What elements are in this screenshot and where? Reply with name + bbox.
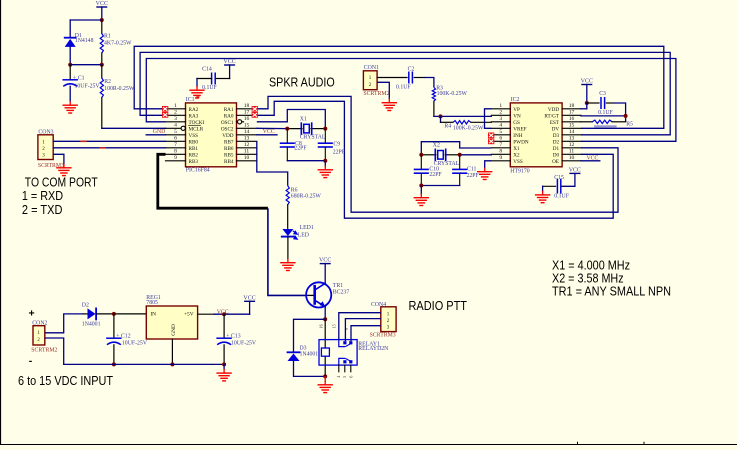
IC1 pin 7 RB1 xyxy=(166,147,186,149)
IC1 pin 14 VDD xyxy=(237,134,257,136)
node junction REG1 GND/rail xyxy=(170,362,174,366)
svg-text:17: 17 xyxy=(569,110,575,116)
IC2 pin 12 D1 xyxy=(562,147,581,149)
svg-text:C15: C15 xyxy=(554,175,564,181)
svg-text:16: 16 xyxy=(318,324,323,328)
wire VCC to VDD junction xyxy=(586,85,588,104)
IC2 pin 9 VSS xyxy=(491,160,510,162)
sheet border bottom edge xyxy=(0,444,737,446)
svg-text:X1: X1 xyxy=(513,146,520,152)
wire emitter node to D3 xyxy=(294,319,326,352)
svg-text:VCC: VCC xyxy=(587,156,599,162)
wire C15 to ground xyxy=(543,185,556,187)
svg-text:0.1UF: 0.1UF xyxy=(554,193,569,199)
node junction VCC/C13 xyxy=(222,312,226,316)
red tick on RXD wire xyxy=(81,140,86,142)
svg-text:6: 6 xyxy=(174,136,177,142)
relay top contact xyxy=(339,340,345,347)
svg-text:18: 18 xyxy=(569,103,575,109)
svg-text:-: - xyxy=(29,355,33,367)
svg-text:R6: R6 xyxy=(291,187,298,193)
svg-text:SCRTRM2: SCRTRM2 xyxy=(31,348,57,354)
svg-text:RB1: RB1 xyxy=(189,146,199,152)
wire junction down to R4 xyxy=(440,116,442,122)
wire R3 to IC2 VN xyxy=(434,115,491,117)
node junction D1/C1 xyxy=(68,63,72,67)
wire crystal caps ground rail xyxy=(287,160,325,162)
svg-text:22PF: 22PF xyxy=(333,149,346,155)
node junction C12/rail xyxy=(112,362,116,366)
wire junction to ground xyxy=(324,161,326,166)
power VCC right of REG1 xyxy=(245,300,255,302)
ground below relay xyxy=(324,376,326,381)
wire RT/GT pin17 xyxy=(581,115,626,117)
svg-text:RELAYD2N: RELAYD2N xyxy=(358,346,389,352)
node junction VCC/C3/VDD xyxy=(585,101,589,105)
wire relay coil vertical xyxy=(324,319,326,348)
svg-text:INH: INH xyxy=(513,133,522,139)
node junction C13/rail/ground xyxy=(222,362,226,366)
svg-text:5: 5 xyxy=(499,129,502,135)
svg-text:IC2: IC2 xyxy=(511,97,520,103)
svg-text:4K7-0.25W: 4K7-0.25W xyxy=(104,41,132,47)
svg-text:RB5: RB5 xyxy=(224,152,234,158)
wire CON3 pin1 to IC1 RB0 xyxy=(53,140,165,142)
wire CON3 pin3 to ground xyxy=(53,154,64,164)
svg-text:RADIO PTT: RADIO PTT xyxy=(409,298,468,313)
svg-text:1N4001: 1N4001 xyxy=(300,352,319,358)
svg-text:+: + xyxy=(29,308,35,320)
ground below C15 xyxy=(542,191,544,195)
IC2 pin 18 VDD xyxy=(562,108,581,110)
wire junction down to VDD pin18 xyxy=(586,103,588,109)
svg-text:R4: R4 xyxy=(444,124,451,130)
IC U1 PIC16F84 body xyxy=(186,103,237,167)
node junction R1/R2 xyxy=(100,63,104,67)
IC1 pin 10 RB4 xyxy=(237,160,257,162)
wire D2 to REG1 IN xyxy=(114,313,146,315)
wire C3 to RT/GT node xyxy=(614,103,626,122)
no-ERC marker IC2 pin5 xyxy=(488,133,494,139)
ground below CON1 xyxy=(388,99,390,103)
IC1 pin 12 RB6 xyxy=(237,147,257,149)
wire loop RA2 to DV (IC1 pin1 - IC2 pin15) xyxy=(134,46,664,128)
svg-text:X2: X2 xyxy=(513,152,520,158)
svg-text:+ C1: + C1 xyxy=(73,75,85,81)
svg-text:10UF-25V: 10UF-25V xyxy=(122,341,148,347)
no-ERC marker IC2 pin6 xyxy=(488,139,494,145)
svg-text:IC1: IC1 xyxy=(186,97,195,103)
svg-text:R5: R5 xyxy=(626,122,633,128)
svg-text:OSC1: OSC1 xyxy=(221,120,234,126)
wire VP-VREF tie xyxy=(485,109,492,129)
svg-text:14: 14 xyxy=(569,129,575,135)
no-ERC marker IC1 pin17 xyxy=(252,112,258,118)
IC1 pin 8 RB2 xyxy=(166,153,186,155)
svg-text:MCLR: MCLR xyxy=(189,126,204,132)
svg-text:10: 10 xyxy=(569,155,575,161)
IC2 pin 4 VREF xyxy=(491,127,510,129)
IC1 pin 13 RB7 xyxy=(237,140,257,142)
svg-text:3: 3 xyxy=(499,116,502,122)
svg-text:RA1: RA1 xyxy=(224,107,234,113)
svg-text:5: 5 xyxy=(174,129,177,135)
IC1 pin 15 OSC2 xyxy=(237,127,257,129)
capacitor C15 0.1UF xyxy=(561,185,563,187)
wire junction to D1 branch xyxy=(70,19,102,21)
wire C2 to R3 xyxy=(414,77,424,79)
node junction emitter/D3/relay coil xyxy=(323,317,327,321)
svg-text:VN: VN xyxy=(513,113,521,119)
svg-text:X1: X1 xyxy=(300,117,307,123)
svg-text:VCC: VCC xyxy=(581,79,593,85)
svg-text:D3: D3 xyxy=(300,345,307,351)
svg-text:8: 8 xyxy=(499,149,502,155)
wire loop RA0 to D0 (IC1 pin17 - IC2 pin11) xyxy=(257,101,613,218)
svg-text:R1: R1 xyxy=(104,33,111,39)
wire IC1 RB7 to R6 xyxy=(257,141,288,185)
wire C14 to ground xyxy=(197,78,212,80)
relay bottom contact xyxy=(339,358,345,365)
capacitor C1 10UF-25V xyxy=(69,65,71,80)
svg-text:VCC: VCC xyxy=(223,59,235,65)
wire ground rail xyxy=(64,363,224,365)
no-ERC marker IC1 pin1 xyxy=(162,106,168,112)
svg-text:16: 16 xyxy=(569,116,575,122)
sheet border left edge xyxy=(0,0,2,445)
capacitor C14 0.1UF xyxy=(211,73,213,84)
svg-text:TR1: TR1 xyxy=(333,283,343,289)
wire junction row xyxy=(70,64,102,66)
svg-text:D1: D1 xyxy=(553,146,560,152)
node junction D2/C12 xyxy=(112,312,116,316)
svg-text:680R-0.25W: 680R-0.25W xyxy=(291,193,322,199)
svg-text:VP: VP xyxy=(513,107,520,113)
svg-text:15: 15 xyxy=(244,123,250,129)
IC2 pin 15 DV xyxy=(562,127,581,129)
svg-text:EST: EST xyxy=(550,120,560,126)
wire VCC to C14 xyxy=(229,65,231,79)
node junction RT-GT/C3/R5 xyxy=(624,114,628,118)
wire CON3 pin2 to IC1 RB1 xyxy=(53,147,165,149)
svg-text:+ C12: + C12 xyxy=(116,334,130,340)
svg-text:2 = TXD: 2 = TXD xyxy=(22,202,63,217)
svg-text:BC237: BC237 xyxy=(333,289,350,295)
LED LED1 xyxy=(282,229,293,236)
svg-text:VCC: VCC xyxy=(569,167,581,173)
wire VCC to TR1 collector xyxy=(324,264,326,284)
node crystal X1 right junction xyxy=(323,127,327,131)
svg-text:RB6: RB6 xyxy=(224,146,234,152)
svg-text:SPKR AUDIO: SPKR AUDIO xyxy=(269,75,335,90)
wire CON4 pin2 to relay xyxy=(345,319,380,342)
transistor TR1 BC237 xyxy=(306,282,331,307)
wire IC2 VSS pin9 to ground xyxy=(485,161,492,168)
svg-text:SCRTRM3: SCRTRM3 xyxy=(370,333,396,339)
wire CON1 pin2 to ground xyxy=(377,82,389,99)
ground below crystal X1 caps xyxy=(324,166,326,170)
ground below C13 xyxy=(223,370,225,374)
svg-text:17: 17 xyxy=(244,110,250,116)
svg-text:SCRTRM2: SCRTRM2 xyxy=(363,91,389,97)
wire CON4 pin3 to relay xyxy=(351,326,381,342)
no-ERC marker IC1 pin18 xyxy=(252,106,258,112)
wire R2 to MCLR pin 4 of IC1 xyxy=(102,127,166,129)
svg-text:VDD: VDD xyxy=(222,133,233,139)
svg-text:VCC: VCC xyxy=(217,309,229,315)
svg-text:TOCKI: TOCKI xyxy=(189,120,205,126)
svg-text:13: 13 xyxy=(569,136,575,142)
crystal X1 xyxy=(287,128,302,130)
svg-text:10: 10 xyxy=(244,155,250,161)
ground below crystal X2 xyxy=(420,194,422,198)
resistor R5 xyxy=(581,121,593,123)
IC1 pin 4 MCLR xyxy=(166,127,186,129)
svg-text:6: 6 xyxy=(348,376,353,378)
R5 highlight bar xyxy=(594,125,617,127)
capacitor C10 22PF xyxy=(420,155,422,169)
svg-text:7805: 7805 xyxy=(146,300,158,306)
IC2 pin 16 EST xyxy=(562,121,581,123)
svg-text:RA0: RA0 xyxy=(224,113,234,119)
IC2 pin 10 OE xyxy=(562,160,581,162)
svg-text:PIC16F84: PIC16F84 xyxy=(186,167,210,173)
svg-text:22PF: 22PF xyxy=(429,172,442,178)
svg-text:9: 9 xyxy=(174,155,177,161)
diode D2 1N4001 xyxy=(83,313,87,315)
ground below CON3 xyxy=(63,164,65,168)
wire crystal X2 bottom rail xyxy=(421,185,459,187)
power VCC above C3 xyxy=(582,84,592,86)
power port VCC at IC1 VDD pin14 xyxy=(257,134,277,136)
resistor R4 100K-0.25W xyxy=(441,121,453,123)
capacitor C13 10UF-25V xyxy=(223,314,225,338)
svg-text:11: 11 xyxy=(244,149,250,155)
svg-text:13: 13 xyxy=(244,136,250,142)
svg-text:C14: C14 xyxy=(202,67,212,73)
IC2 pin 13 D2 xyxy=(562,140,581,142)
resistor R2 100R-0.25W xyxy=(101,65,103,78)
IC2 pin 2 VN xyxy=(491,114,510,116)
IC1 pin 1 RA2 xyxy=(166,108,186,110)
svg-text:15: 15 xyxy=(569,123,575,129)
wire TR1 emitter to relay node xyxy=(324,307,326,320)
svg-text:RA2: RA2 xyxy=(189,107,199,113)
IC U2 HT9170 body xyxy=(510,103,562,167)
capacitor C2 0.1UF xyxy=(408,72,410,83)
IC2 pin 3 GS xyxy=(491,121,510,123)
svg-text:6 to 15 VDC INPUT: 6 to 15 VDC INPUT xyxy=(18,373,113,388)
svg-text:1N4148: 1N4148 xyxy=(75,38,94,44)
wire VCC to C15 xyxy=(562,173,575,186)
IC2 pin 5 INH xyxy=(491,134,510,136)
svg-text:VDD: VDD xyxy=(548,107,559,113)
IC2 pin 7 X1 xyxy=(491,147,510,149)
svg-text:1: 1 xyxy=(499,103,502,109)
IC2 pin 14 D3 xyxy=(562,134,581,136)
svg-text:CON1: CON1 xyxy=(364,65,379,71)
resistor R6 680R-0.25W xyxy=(286,186,289,205)
svg-text:RB0: RB0 xyxy=(189,139,199,145)
svg-text:VCC: VCC xyxy=(96,1,108,7)
wire CON4 pin1 to relay xyxy=(339,313,381,340)
node crystal X2 right junction xyxy=(458,153,462,157)
svg-text:RB3: RB3 xyxy=(189,159,199,165)
svg-text:14: 14 xyxy=(244,129,250,135)
svg-text:DV: DV xyxy=(552,126,560,132)
relay coil xyxy=(321,348,329,356)
svg-text:7: 7 xyxy=(174,142,177,148)
svg-text:0.1UF: 0.1UF xyxy=(396,85,411,91)
diode D3 1N4001 xyxy=(288,351,300,353)
svg-text:CRYSTAL: CRYSTAL xyxy=(300,134,326,140)
svg-text:VCC: VCC xyxy=(319,258,331,264)
ground below LED1 xyxy=(287,259,289,263)
svg-text:C11: C11 xyxy=(467,167,477,173)
ground below C1 xyxy=(69,102,71,106)
svg-text:7: 7 xyxy=(499,142,502,148)
svg-text:VCC: VCC xyxy=(263,129,275,135)
node junction C10/ground xyxy=(419,184,423,188)
svg-text:6: 6 xyxy=(499,136,502,142)
wire loop RA3 to D3 (IC1 pin2 - IC2 pin14) xyxy=(140,52,670,134)
IC1 pin 6 RB0 xyxy=(166,140,186,142)
svg-text:4: 4 xyxy=(499,123,502,129)
wire loop TOCKI to D2 (IC1 pin3 - IC2 pin13) xyxy=(146,59,676,142)
no-ERC marker IC1 pin2 xyxy=(162,112,168,118)
svg-text:VCC: VCC xyxy=(243,295,255,301)
ground below C14 xyxy=(196,87,198,91)
svg-text:GS: GS xyxy=(513,120,520,126)
svg-text:15: 15 xyxy=(332,324,337,328)
svg-text:RT/GT: RT/GT xyxy=(544,113,560,119)
svg-text:HT9170: HT9170 xyxy=(510,168,529,174)
svg-text:12: 12 xyxy=(244,142,250,148)
power VCC above TR1 xyxy=(320,263,330,265)
wire CON2 pin1 to D2 xyxy=(45,314,83,333)
svg-text:LED: LED xyxy=(298,232,309,238)
svg-text:22PF: 22PF xyxy=(467,173,480,179)
IC1 pin 5 VSS xyxy=(166,134,186,136)
wire REG1 GND to rail xyxy=(171,339,173,364)
svg-text:2: 2 xyxy=(499,110,502,116)
svg-text:R2: R2 xyxy=(104,79,111,85)
resistor R1 4K7-0.25W xyxy=(101,20,103,34)
svg-text:D2: D2 xyxy=(553,139,560,145)
wire VCC stem to junction xyxy=(101,7,103,20)
svg-text:PWDN: PWDN xyxy=(513,139,529,145)
svg-text:C2: C2 xyxy=(408,66,415,72)
wire up to VCC symbol xyxy=(249,301,251,314)
svg-text:GND: GND xyxy=(153,129,166,135)
diode D1 1N4148 xyxy=(65,37,76,39)
IC1 pin 18 RA1 xyxy=(237,108,257,110)
svg-text:1: 1 xyxy=(174,103,177,109)
svg-text:1N4001: 1N4001 xyxy=(82,321,101,327)
svg-text:GND: GND xyxy=(171,324,177,336)
crystal X2 xyxy=(421,154,436,156)
svg-text:D0: D0 xyxy=(553,152,560,158)
IC1 pin 2 RA3 xyxy=(166,114,186,116)
node junction C9/ground xyxy=(323,159,327,163)
svg-text:RB2: RB2 xyxy=(189,152,199,158)
wire loop RA1 to D1 (IC1 pin18 - IC2 pin12) xyxy=(257,96,618,212)
svg-text:18: 18 xyxy=(244,103,250,109)
power port GND at IC1 VSS pin5 xyxy=(146,134,165,136)
IC1 pin 17 RA0 xyxy=(237,114,257,116)
svg-text:C9: C9 xyxy=(333,141,340,147)
IC2 pin 8 X2 xyxy=(491,153,510,155)
capacitor C8 22PF xyxy=(286,129,288,143)
svg-text:3: 3 xyxy=(174,116,177,122)
node junction D3/coil/ground xyxy=(323,374,327,378)
IC2 pin 6 PWDN xyxy=(491,140,510,142)
svg-text:+5V: +5V xyxy=(184,311,194,317)
node junction R3/R4 xyxy=(439,114,443,118)
svg-text:IN: IN xyxy=(150,311,156,317)
svg-text:LED1: LED1 xyxy=(300,225,314,231)
svg-text:+ C13: + C13 xyxy=(226,334,240,340)
svg-text:RB4: RB4 xyxy=(224,159,234,165)
svg-text:TR1 = ANY SMALL NPN: TR1 = ANY SMALL NPN xyxy=(552,283,671,298)
IC1 pin 11 RB5 xyxy=(237,153,257,155)
wire CON1 pin1 to C2 xyxy=(377,77,407,79)
IC1 pin 9 RB3 xyxy=(166,160,186,162)
svg-text:11: 11 xyxy=(569,149,575,155)
svg-text:VREF: VREF xyxy=(513,126,526,132)
svg-text:D2: D2 xyxy=(82,302,89,308)
capacitor C11 22PF xyxy=(459,155,461,169)
wire RB2 to TR1 base (thick) xyxy=(158,154,268,208)
IC2 pin 11 D0 xyxy=(562,153,581,155)
node crystal X2 left junction xyxy=(419,153,423,157)
IC1 pin4 MCLR inversion bubble xyxy=(181,126,185,130)
power VCC above C15 xyxy=(570,172,580,174)
svg-text:RB7: RB7 xyxy=(224,139,234,145)
node crystal X1 left junction xyxy=(285,127,289,131)
relay bottom stubs xyxy=(338,365,340,372)
wire CON2 pin2 to ground rail xyxy=(45,338,64,364)
svg-text:10UF-25V: 10UF-25V xyxy=(231,340,257,346)
voltage regulator REG1 7805 xyxy=(146,306,197,339)
relay RELAY1 RELAYD2N body xyxy=(319,340,357,366)
wire OSC1 to crystal X1 right node xyxy=(257,110,326,129)
svg-text:OE: OE xyxy=(552,159,559,165)
svg-text:D3: D3 xyxy=(553,133,560,139)
svg-text:100K-0.25W: 100K-0.25W xyxy=(437,91,468,97)
svg-text:5: 5 xyxy=(342,376,347,378)
svg-text:VSS: VSS xyxy=(513,159,523,165)
svg-text:X2: X2 xyxy=(433,143,440,149)
svg-text:4: 4 xyxy=(174,123,177,129)
svg-text:C3: C3 xyxy=(599,91,606,97)
svg-text:OSC2: OSC2 xyxy=(221,126,234,132)
power VCC above C14 xyxy=(225,64,235,66)
svg-text:8: 8 xyxy=(174,149,177,155)
IC1 pin16 OSC1 inversion bubble xyxy=(238,120,242,124)
red tick on TXD wire xyxy=(100,147,105,149)
svg-text:22PF: 22PF xyxy=(294,146,307,152)
IC2 pin 1 VP xyxy=(491,108,510,110)
svg-text:16: 16 xyxy=(244,116,250,122)
wire LED1 to ground xyxy=(287,237,289,259)
ground below IC2 VSS xyxy=(484,168,486,172)
power port VCC at IC2 OE pin10 xyxy=(581,160,600,162)
capacitor C9 22PF xyxy=(324,129,326,143)
node junction VCC/R1/D1 xyxy=(100,18,104,22)
capacitor C12 10UF-25V xyxy=(113,314,115,338)
IC1 pin 3 TOCKI xyxy=(166,121,186,123)
